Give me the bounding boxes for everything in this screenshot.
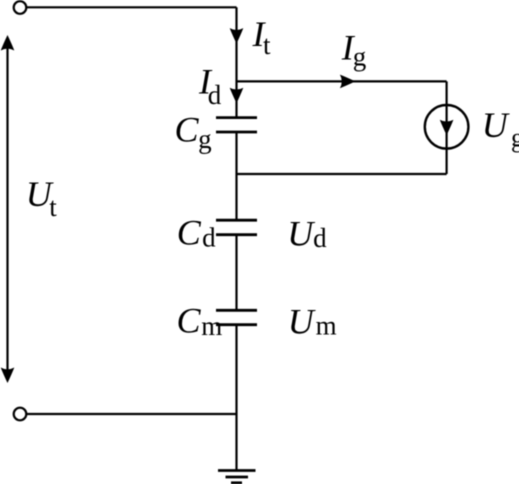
wire segment Cm to ground xyxy=(235,325,237,471)
svg-text:t: t xyxy=(263,30,271,60)
svg-text:m: m xyxy=(316,310,337,340)
svg-text:g: g xyxy=(511,123,519,153)
capacitor Cg plates xyxy=(216,116,257,119)
arrow It xyxy=(230,28,244,43)
svg-text:m: m xyxy=(201,311,222,341)
arrow Id xyxy=(230,88,244,104)
wire top horizontal xyxy=(26,6,236,8)
wire main vertical upper segment xyxy=(235,7,237,117)
capacitor Cd plates xyxy=(216,219,257,222)
wire return horizontal xyxy=(237,173,447,175)
svg-text:U: U xyxy=(288,302,316,342)
wire bottom horizontal xyxy=(26,413,236,415)
wire Ig horizontal xyxy=(237,80,447,82)
ground xyxy=(218,469,256,472)
svg-text:C: C xyxy=(177,301,202,341)
svg-text:d: d xyxy=(202,222,216,252)
svg-text:C: C xyxy=(177,212,202,252)
svg-text:g: g xyxy=(353,42,367,72)
svg-text:d: d xyxy=(208,80,222,110)
wire right vertical through source xyxy=(446,81,448,174)
wire middle segment Cg to Cd xyxy=(235,132,237,220)
arrowhead Ut bottom xyxy=(1,368,15,384)
terminal bottom-left xyxy=(14,408,27,421)
svg-text:C: C xyxy=(175,110,200,150)
current source U_g circle xyxy=(425,105,469,149)
arrowhead Ut top xyxy=(1,35,15,51)
capacitor Cm plates xyxy=(216,309,257,312)
current source arrow xyxy=(440,120,454,136)
terminal top-left xyxy=(14,1,27,14)
arrow Ig xyxy=(340,75,356,89)
svg-text:d: d xyxy=(313,223,327,253)
voltage arrow Ut line xyxy=(6,44,8,374)
svg-text:t: t xyxy=(49,192,57,222)
svg-text:U: U xyxy=(287,213,315,253)
wire segment Cd to Cm xyxy=(235,235,237,311)
svg-text:g: g xyxy=(198,124,212,154)
svg-text:U: U xyxy=(482,105,510,145)
